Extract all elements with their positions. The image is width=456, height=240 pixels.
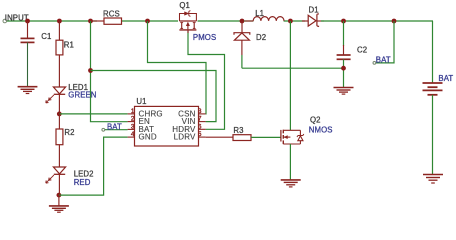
wire L1 right to D1: [284, 20, 305, 22]
svg-text:2: 2: [131, 116, 135, 123]
svg-text:BAT: BAT: [107, 122, 122, 131]
svg-text:NMOS: NMOS: [309, 125, 333, 134]
pin 6 HDRV: [172, 123, 205, 133]
wire CSN net: [148, 21, 207, 114]
net label BAT right: [373, 21, 394, 64]
svg-text:U1: U1: [136, 97, 146, 106]
svg-text:Q1: Q1: [179, 1, 190, 10]
wire D1 to battery corner: [321, 20, 433, 22]
transistor Q1 PMOS: [179, 1, 216, 42]
ground under LED2: [49, 206, 69, 212]
pin 4 GND: [128, 131, 157, 142]
svg-text:C1: C1: [41, 32, 51, 41]
wire LDRV to R3: [206, 136, 233, 138]
net label BAT left: [102, 122, 128, 131]
resistor R2: [56, 114, 75, 167]
pin 7 VIN: [182, 116, 206, 126]
svg-text:6: 6: [198, 123, 202, 130]
LED LED1: [46, 83, 97, 114]
svg-text:5: 5: [198, 131, 202, 138]
wire Q1 drain to node SW1: [198, 20, 254, 22]
pin 1 CHRG: [128, 108, 163, 118]
svg-text:BAT: BAT: [376, 55, 391, 64]
junction node LED2/ground: [57, 193, 62, 198]
junction node C2 top: [341, 19, 346, 24]
ground under C2: [334, 88, 354, 95]
junction node CHRG/LED1/R2: [57, 112, 62, 117]
wire battery top lead: [432, 21, 434, 83]
wire D1 anode lead: [302, 20, 309, 22]
ground under battery: [423, 175, 443, 184]
pin 5 LDRV: [174, 131, 206, 142]
wire ground stub LED2: [58, 195, 60, 206]
junction node SW1/D2: [240, 19, 245, 24]
capacitor C2: [337, 21, 368, 87]
junction node CSN tap: [145, 19, 150, 24]
inductor L1: [245, 9, 284, 21]
svg-text:8: 8: [198, 108, 202, 115]
transistor Q2 NMOS: [281, 116, 333, 145]
pin 2 EN: [128, 116, 150, 126]
svg-text:C2: C2: [357, 45, 367, 54]
wire CHRG net: [59, 113, 127, 115]
wire D1 cathode lead: [317, 20, 324, 22]
svg-text:3: 3: [131, 123, 135, 130]
svg-text:R3: R3: [233, 126, 243, 135]
battery BAT: [423, 74, 454, 174]
wire SW2 to Q2 drain: [289, 21, 291, 130]
input pin INPUT: [3, 14, 29, 23]
junction node BAT label tap: [392, 19, 397, 24]
svg-text:7: 7: [198, 116, 202, 123]
diode D1: [308, 6, 319, 27]
svg-text:1: 1: [131, 108, 135, 115]
junction node EN tap: [88, 19, 93, 24]
wire ground net D2 to C2: [242, 67, 344, 69]
wire EN vertical net: [91, 21, 128, 122]
junction node SW2/L1: [288, 19, 293, 24]
wire top rail input to RCS: [7, 20, 98, 22]
wire RCS left lead: [91, 20, 105, 22]
svg-text:Q2: Q2: [310, 116, 321, 125]
capacitor C1: [21, 21, 52, 86]
junction node C1/input: [25, 19, 30, 24]
pin 3 BAT: [128, 123, 154, 133]
wire bottom rail: [59, 137, 128, 195]
wire RCS right to Q1: [122, 20, 179, 22]
svg-text:4: 4: [131, 131, 135, 138]
ground under C1: [18, 87, 38, 94]
svg-text:D2: D2: [256, 33, 266, 42]
svg-text:R1: R1: [64, 41, 74, 50]
resistor R3: [233, 126, 251, 140]
svg-text:RCS: RCS: [103, 9, 120, 18]
svg-text:GREEN: GREEN: [68, 91, 96, 100]
resistor RCS: [103, 9, 122, 24]
wire R3 to Q2 gate: [251, 136, 281, 138]
svg-text:LDRV: LDRV: [174, 133, 196, 142]
svg-text:PMOS: PMOS: [193, 33, 216, 42]
wire HDRV net: [188, 31, 225, 129]
LED LED2: [46, 167, 94, 195]
resistor R1: [56, 21, 74, 87]
svg-text:RED: RED: [74, 178, 91, 187]
svg-text:GND: GND: [139, 133, 157, 142]
IC U1: [135, 97, 199, 146]
ground under Q2: [281, 180, 301, 187]
junction node C2 bottom: [341, 66, 346, 71]
junction node R1/input: [57, 19, 62, 24]
junction node EN/VIN: [88, 68, 93, 73]
wire Q2 source to ground: [289, 144, 291, 180]
svg-text:L1: L1: [255, 9, 264, 18]
wire VIN net: [91, 71, 217, 122]
pin 8 CSN: [178, 108, 206, 118]
svg-text:D1: D1: [309, 6, 319, 15]
diode D2: [234, 21, 266, 68]
svg-text:R2: R2: [64, 128, 74, 137]
svg-text:BAT: BAT: [438, 74, 453, 83]
